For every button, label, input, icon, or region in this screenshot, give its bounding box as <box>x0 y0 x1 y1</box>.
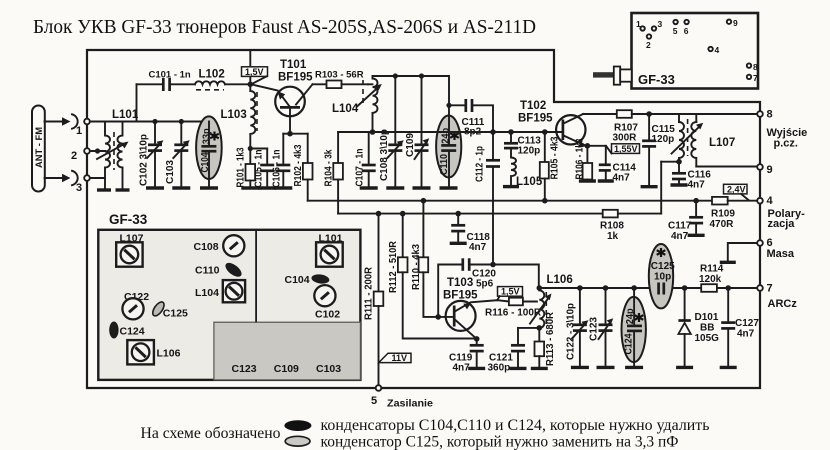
resistor R111 <box>364 214 384 385</box>
voltage flag 1,5V (T101) <box>242 67 268 85</box>
svg-text:C117: C117 <box>668 221 692 232</box>
capacitor C105 <box>253 149 274 189</box>
svg-text:R109: R109 <box>711 209 735 220</box>
svg-text:33p: 33p <box>202 128 213 144</box>
svg-text:C108: C108 <box>194 241 219 253</box>
transistor T103 <box>443 277 497 339</box>
GF-33 box pin 9 <box>727 18 738 28</box>
svg-text:2: 2 <box>646 40 651 50</box>
svg-text:1,5V: 1,5V <box>501 287 520 297</box>
wire L107 secondary to pin 9 <box>696 166 757 168</box>
svg-text:C109: C109 <box>405 133 416 157</box>
pin 4 <box>757 195 773 207</box>
svg-text:R102 - 4k3: R102 - 4k3 <box>293 144 304 186</box>
svg-text:C112 - 1p: C112 - 1p <box>474 146 485 182</box>
resistor R101 <box>236 147 255 188</box>
svg-text:L105: L105 <box>516 176 543 188</box>
svg-text:C124: C124 <box>120 326 145 338</box>
svg-text:R106 - 1k3: R106 - 1k3 <box>575 138 586 179</box>
voltage flag 1,5V (T103) <box>497 287 522 301</box>
layout trimmer C108 <box>194 235 245 256</box>
label Polaryzacja <box>768 208 806 230</box>
wire bias line to pin 4 <box>308 198 712 204</box>
svg-text:C123: C123 <box>589 317 600 341</box>
svg-text:C127: C127 <box>735 318 759 329</box>
svg-text:5: 5 <box>673 26 678 36</box>
transistor T101 <box>252 59 313 134</box>
svg-text:300R: 300R <box>613 133 638 144</box>
GF-33 box pin 7 <box>747 73 758 83</box>
svg-text:C125: C125 <box>163 308 188 320</box>
svg-text:4n7: 4n7 <box>453 363 471 374</box>
svg-text:C122 - 3\10p: C122 - 3\10p <box>566 303 577 360</box>
capacitor C110 (grey ellipse, to delete) <box>436 105 461 188</box>
GF-33 box pin 3 <box>652 19 663 31</box>
node C110 top branch <box>446 103 451 108</box>
varicap diode D101 <box>678 288 719 367</box>
wire supply riser from top border <box>249 50 251 84</box>
voltage flag 1,55V (T102 emitter) <box>607 144 640 154</box>
inductor L104 (variable) <box>332 76 382 132</box>
svg-text:BF195: BF195 <box>278 72 313 84</box>
antenna plug of GF-33 box <box>593 67 632 85</box>
svg-text:R112 - 510R: R112 - 510R <box>388 240 399 293</box>
svg-text:4n7: 4n7 <box>688 180 706 191</box>
capacitor C111 <box>449 99 493 138</box>
svg-text:T102: T102 <box>520 100 546 112</box>
ground under C118 <box>450 242 467 245</box>
capacitor C117 <box>668 201 703 242</box>
svg-text:конденсаторы С104,С110 и С124: конденсаторы С104,С110 и С124, которые н… <box>321 417 710 434</box>
wire top tank rail y76 <box>373 73 450 105</box>
svg-text:R111 - 200R: R111 - 200R <box>364 266 375 320</box>
inductor L103 <box>221 84 258 148</box>
svg-text:1: 1 <box>76 125 82 137</box>
ground under C104 <box>200 186 218 189</box>
svg-text:4n7: 4n7 <box>671 231 689 242</box>
svg-text:105G: 105G <box>695 333 720 344</box>
resistor R103 <box>313 70 369 89</box>
output label Wyjscie p.cz. <box>767 127 808 150</box>
svg-text:R116 - 100R: R116 - 100R <box>485 308 542 319</box>
ground under C105 <box>258 186 276 189</box>
GF-33 box pin 5 <box>673 20 678 36</box>
ground under R101 <box>241 186 259 189</box>
main schematic border <box>87 50 760 388</box>
ground under C122 <box>571 366 589 369</box>
ground under C123 <box>597 366 615 369</box>
svg-text:120p: 120p <box>518 146 541 157</box>
GF-33 box pin 6 <box>684 20 689 36</box>
svg-text:BB: BB <box>700 323 714 334</box>
ground under C121 <box>510 367 527 370</box>
svg-text:L101: L101 <box>112 109 139 121</box>
legend line 1 <box>321 417 710 434</box>
svg-text:8: 8 <box>753 62 758 72</box>
legend note <box>141 425 281 442</box>
svg-text:R103 - 56R: R103 - 56R <box>315 70 364 81</box>
layout trimmer C102 <box>314 285 340 320</box>
resistor R106 <box>575 138 593 181</box>
capacitor C107 <box>354 132 375 188</box>
node L103 bottom <box>248 146 268 151</box>
wire pin1 to L101 <box>90 121 105 123</box>
svg-text:C103: C103 <box>316 363 341 375</box>
pin 2 <box>71 148 90 162</box>
node R107/C115 junction, wire to pin 8 <box>646 111 757 117</box>
wire antenna row 3 with plug arrow <box>45 171 78 185</box>
capacitor C104 (grey ellipse, to delete) <box>196 116 222 188</box>
layout coil L101 <box>316 233 343 267</box>
ground under C110 <box>440 186 458 189</box>
wire pin3 to L101 <box>90 177 105 179</box>
capacitor C119 <box>449 339 484 374</box>
svg-text:24p: 24p <box>625 308 636 324</box>
svg-text:C106 - 1n: C106 - 1n <box>271 150 282 188</box>
GF-33 module pinout box (top right) <box>632 13 759 89</box>
svg-text:C102: C102 <box>315 309 340 321</box>
layout labels C123 C109 C103 <box>232 363 342 375</box>
svg-text:C123: C123 <box>232 363 257 375</box>
svg-text:C102 3\10p: C102 3\10p <box>139 134 150 186</box>
trimmer capacitor C109 <box>405 76 429 188</box>
resistor R108 <box>600 210 624 242</box>
resistor R114 <box>699 264 724 292</box>
capacitor C120 <box>438 258 539 317</box>
svg-text:Masa: Masa <box>767 248 795 260</box>
trimmer capacitor C123 <box>589 288 614 367</box>
ground under C103 <box>172 186 190 189</box>
capacitor C113 <box>504 132 541 157</box>
ground under L101 right <box>116 168 130 191</box>
svg-text:C104: C104 <box>285 274 310 286</box>
wire ARCz rail y288 <box>539 285 757 291</box>
wire T102 base line y132 <box>338 129 563 135</box>
svg-text:R114: R114 <box>700 264 724 275</box>
ANT-FM connector <box>32 106 45 192</box>
ground under L105 <box>503 185 519 188</box>
ground Masa <box>720 243 757 262</box>
svg-text:Блок УКВ GF-33 тюнеров Faust A: Блок УКВ GF-33 тюнеров Faust AS-205S,AS-… <box>33 16 536 38</box>
svg-text:4n7: 4n7 <box>737 329 755 340</box>
svg-text:Zasilanie: Zasilanie <box>387 398 433 410</box>
ground under C116 <box>671 183 688 186</box>
wire antenna row 1 with plug arrow <box>45 114 78 128</box>
svg-text:C124: C124 <box>624 333 635 354</box>
svg-text:p.cz.: p.cz. <box>774 138 798 150</box>
svg-text:7: 7 <box>753 73 758 83</box>
svg-text:На схеме обозначено: На схеме обозначено <box>141 425 281 442</box>
svg-text:8: 8 <box>767 109 773 121</box>
GF-33 component layout box <box>98 212 360 380</box>
wire top rail y121 L101 to C104 <box>105 119 209 124</box>
layout coil L106 <box>127 340 180 364</box>
svg-text:GF-33: GF-33 <box>638 72 675 87</box>
svg-text:1,55V: 1,55V <box>614 144 638 154</box>
svg-text:BF195: BF195 <box>518 113 553 125</box>
GF-33 box pin 1 <box>636 19 645 31</box>
wire riser to C101 line <box>136 84 138 121</box>
ground under L101 left <box>97 188 111 191</box>
svg-text:6: 6 <box>684 26 689 36</box>
inductor L102 <box>195 69 250 90</box>
svg-text:3: 3 <box>76 182 82 194</box>
ground under C106 <box>274 186 292 189</box>
svg-text:1,5V: 1,5V <box>245 67 264 77</box>
svg-text:4: 4 <box>767 195 774 207</box>
svg-text:L106: L106 <box>157 348 181 360</box>
voltage flag 2,4V <box>724 184 749 200</box>
layout trimmer C122 <box>122 291 149 319</box>
capacitor C106 <box>271 134 290 188</box>
capacitor C121 <box>488 328 526 374</box>
svg-text:2,4V: 2,4V <box>727 184 746 194</box>
wire supply line 2 (R108 line) <box>338 211 661 217</box>
node T101 emitter junction <box>283 131 307 137</box>
node T101 base junction <box>248 82 254 88</box>
pin 1 <box>76 119 90 137</box>
layout coil L104 <box>195 280 245 302</box>
ground under C115 <box>641 185 658 188</box>
svg-text:D101: D101 <box>695 312 719 323</box>
svg-text:T103: T103 <box>447 277 473 289</box>
pin 8 <box>757 109 772 121</box>
svg-text:9: 9 <box>733 18 738 28</box>
svg-text:R101 - 1k3: R101 - 1k3 <box>236 147 247 187</box>
node L106 bottom <box>518 325 542 331</box>
inductor L106 (variable, oscillator) <box>530 274 573 328</box>
capacitor C114 <box>599 146 636 184</box>
svg-text:11V: 11V <box>392 353 408 363</box>
ground under R113 <box>531 367 548 370</box>
svg-text:470R: 470R <box>710 219 735 230</box>
svg-text:R104 - 3k: R104 - 3k <box>323 149 334 186</box>
svg-text:ANT - FM: ANT - FM <box>34 127 45 168</box>
resistor R105 <box>540 132 561 201</box>
svg-text:7: 7 <box>767 283 773 295</box>
svg-text:T101: T101 <box>280 59 307 71</box>
ground under C124 <box>625 366 643 369</box>
transformer L107 (variable) <box>672 114 736 167</box>
legend line 2 <box>321 434 679 450</box>
svg-text:9: 9 <box>767 164 773 176</box>
pin 3 <box>76 175 90 194</box>
node T102 emitter junction <box>585 143 606 149</box>
pin 5 Zasilanie <box>371 385 433 409</box>
capacitor C127 <box>721 288 759 367</box>
transistor T102 <box>518 100 588 148</box>
GF-33 box pin 2 <box>646 34 651 50</box>
svg-text:3: 3 <box>658 19 663 29</box>
svg-text:zacja: zacja <box>768 218 796 230</box>
voltage flag 11V <box>379 353 411 363</box>
svg-text:ARCz: ARCz <box>768 298 798 310</box>
ground under C119 <box>468 367 485 370</box>
svg-text:L102: L102 <box>199 69 225 81</box>
svg-text:4: 4 <box>715 45 720 55</box>
layout capacitor C104 (black ellipse) <box>285 273 330 286</box>
svg-text:C104: C104 <box>200 152 211 172</box>
resistor R110 <box>411 201 452 320</box>
ground under C108 <box>386 186 404 189</box>
ground under C117 <box>688 234 705 237</box>
svg-text:R110 - 4k3: R110 - 4k3 <box>411 244 422 290</box>
wire pin2 to L101 tap <box>90 148 105 153</box>
ground under C107 <box>360 186 378 189</box>
svg-text:GF-33: GF-33 <box>109 212 148 227</box>
svg-text:L107: L107 <box>709 137 735 149</box>
svg-text:2: 2 <box>71 150 77 162</box>
wire T102 collector to R107 <box>583 113 617 115</box>
svg-text:360p: 360p <box>488 363 511 374</box>
ground under C114 <box>598 179 614 182</box>
trimmer capacitor C122 <box>566 288 589 367</box>
node L107 bottom / C116 <box>661 159 682 165</box>
GF-33 box pin 4 <box>708 45 719 55</box>
layout coil L107 <box>116 233 143 267</box>
ground under C127 <box>720 366 737 369</box>
svg-text:конденсатор С125, который нужн: конденсатор С125, который нужно заменить… <box>321 434 679 450</box>
svg-text:4n7: 4n7 <box>613 173 631 184</box>
pin 6 <box>757 237 795 260</box>
resistor R102 <box>293 134 312 201</box>
trimmer capacitor C108 <box>379 76 404 188</box>
layout capacitor C125 (small grey ellipse) <box>151 300 189 319</box>
legend grey ellipse <box>285 436 310 446</box>
svg-text:5: 5 <box>371 395 377 407</box>
svg-text:R105 - 4k3: R105 - 4k3 <box>550 136 561 179</box>
svg-text:C109: C109 <box>274 363 299 375</box>
trimmer capacitor C103 <box>165 122 190 189</box>
svg-text:L104: L104 <box>195 287 219 299</box>
capacitor C101 <box>137 70 196 92</box>
svg-text:L106: L106 <box>547 274 573 286</box>
wire riser L107 to R108 line <box>660 162 662 214</box>
svg-text:R108: R108 <box>600 221 624 232</box>
capacitor C125 (grey ellipse, replace with 3,3 pF) <box>649 244 675 308</box>
svg-text:C108 3\10p: C108 3\10p <box>379 129 390 181</box>
resistor R116 <box>485 298 542 319</box>
svg-text:4n7: 4n7 <box>469 242 487 253</box>
pin 7 <box>757 283 797 311</box>
capacitor C124 (grey ellipse, to delete) <box>622 288 646 367</box>
inductor L101 <box>97 109 139 190</box>
ground under C102 <box>146 186 164 189</box>
svg-text:C105 - 1n: C105 - 1n <box>253 150 264 188</box>
legend black ellipse <box>284 420 311 431</box>
ground under D101 <box>676 366 693 369</box>
capacitor C118 <box>451 214 490 253</box>
svg-text:1: 1 <box>636 19 641 29</box>
svg-text:C107 - 1n: C107 - 1n <box>354 149 365 187</box>
trimmer capacitor C102 <box>139 122 164 189</box>
resistor R109 <box>710 197 758 230</box>
svg-text:C110: C110 <box>195 265 220 277</box>
svg-text:24p: 24p <box>441 128 452 144</box>
svg-text:R113 - 680R: R113 - 680R <box>545 311 556 366</box>
capacitor C112 (series to oscillator) <box>474 132 500 265</box>
GF-33 box pin 8 <box>747 62 758 72</box>
capacitor C115 <box>642 114 675 187</box>
capacitor C116 <box>672 162 711 191</box>
resistor R112 <box>388 214 477 339</box>
ground under R106 <box>579 179 596 182</box>
layout capacitor C110 (black ellipse) <box>195 260 244 279</box>
svg-text:C110: C110 <box>439 154 450 175</box>
resistor R113 <box>535 311 556 368</box>
ground under C109 <box>413 186 431 189</box>
pin 9 <box>757 164 772 176</box>
layout capacitor C124 (black ellipse) <box>109 322 145 339</box>
svg-text:L104: L104 <box>332 103 359 115</box>
resistor R104 <box>323 132 343 214</box>
svg-text:L103: L103 <box>221 109 247 121</box>
inductor L105 <box>511 148 543 188</box>
resistor R107 <box>613 110 650 143</box>
svg-text:C103: C103 <box>165 160 176 184</box>
svg-text:5p6: 5p6 <box>476 279 494 290</box>
svg-text:BF195: BF195 <box>443 290 478 302</box>
svg-text:1k: 1k <box>607 231 619 242</box>
node T103 collector junction <box>474 336 480 342</box>
svg-text:10p: 10p <box>654 271 671 282</box>
